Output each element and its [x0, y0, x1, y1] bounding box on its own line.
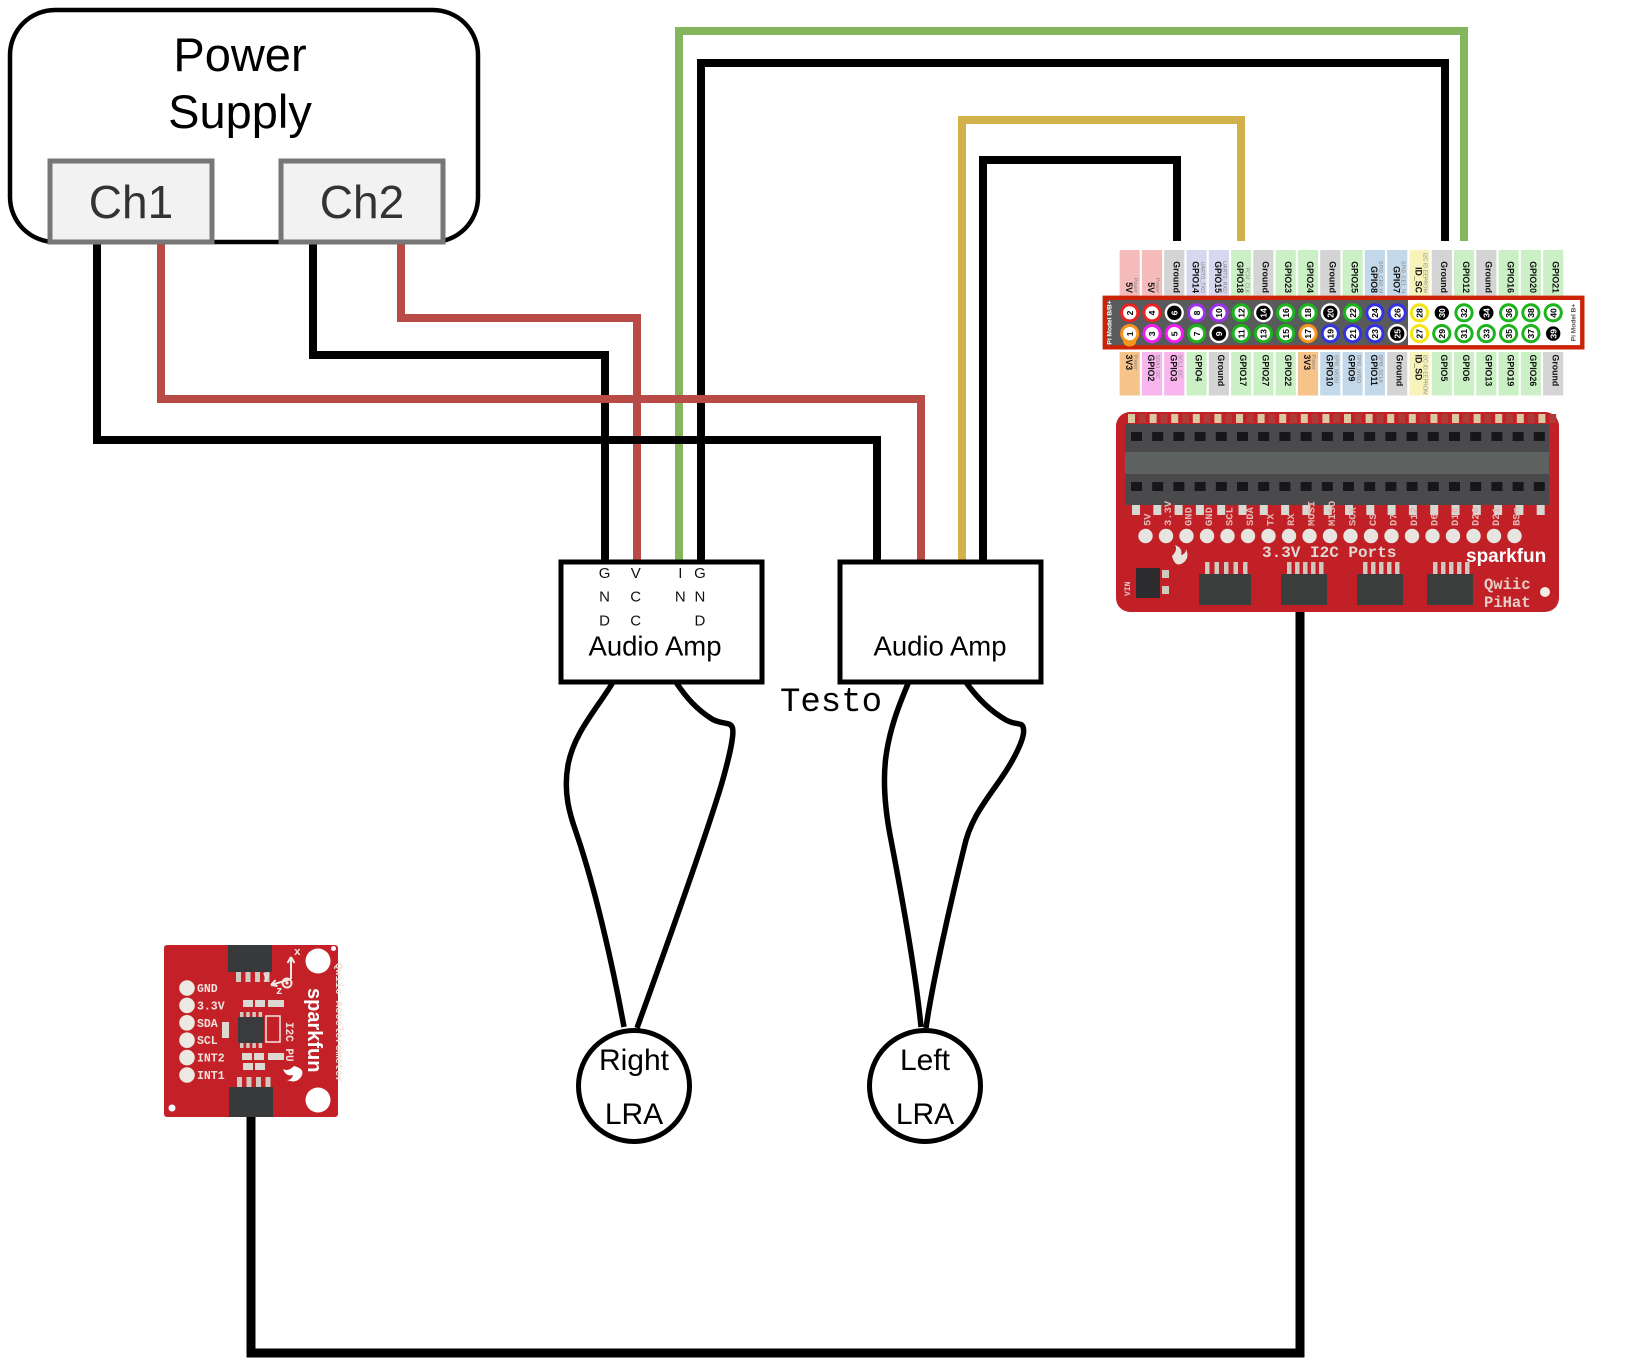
svg-text:29: 29: [1437, 329, 1447, 339]
svg-text:30: 30: [1437, 308, 1447, 318]
svg-text:GPIO12: GPIO12: [1461, 261, 1471, 293]
svg-text:GPIO27: GPIO27: [1261, 355, 1271, 387]
svg-text:3: 3: [1147, 331, 1157, 336]
svg-text:D16: D16: [1450, 507, 1462, 526]
svg-text:GPIO16: GPIO16: [1506, 261, 1516, 293]
svg-text:GPIO5: GPIO5: [1439, 355, 1449, 382]
svg-text:28: 28: [1415, 308, 1425, 318]
svg-text:SCL1 I2C: SCL1 I2C: [1177, 355, 1183, 378]
pin 16: [1276, 303, 1295, 322]
audio amp U2: [840, 562, 1041, 682]
svg-text:G: G: [694, 565, 706, 582]
pin 26: [1388, 303, 1407, 322]
pin 10: [1209, 303, 1228, 322]
svg-text:INT1: INT1: [197, 1070, 225, 1083]
svg-text:SPI0_MOSI: SPI0_MOSI: [1333, 355, 1339, 383]
pihat solder pads: [1132, 505, 1545, 515]
pin 40: [1544, 303, 1563, 322]
GPIO header strip body: [1105, 298, 1583, 348]
svg-text:D21: D21: [1491, 507, 1503, 526]
svg-text:GPIO6: GPIO6: [1461, 355, 1471, 382]
pin 5: [1165, 324, 1184, 343]
svg-text:Power: Power: [173, 28, 306, 81]
svg-text:D7: D7: [1389, 513, 1401, 526]
audio amp U1: [561, 562, 762, 682]
pin 11: [1232, 324, 1251, 343]
pin 21: [1343, 324, 1362, 343]
svg-text:37: 37: [1526, 329, 1536, 339]
pin 2: [1120, 303, 1139, 322]
pin 8: [1187, 303, 1206, 322]
pin 35: [1499, 324, 1518, 343]
svg-text:26: 26: [1392, 308, 1402, 318]
svg-text:SDA1 I2C: SDA1 I2C: [1154, 355, 1160, 379]
svg-text:D12: D12: [1409, 507, 1421, 526]
pin 15: [1276, 324, 1295, 343]
svg-text:Audio Amp: Audio Amp: [588, 631, 721, 662]
svg-text:GPIO26: GPIO26: [1528, 355, 1538, 387]
wire black Ch1 to amp2 GND: [97, 240, 877, 566]
svg-text:SPI0_CE0_N: SPI0_CE0_N: [1377, 261, 1383, 293]
svg-text:GPIO21: GPIO21: [1550, 261, 1560, 293]
svg-text:RX: RX: [1286, 513, 1298, 526]
svg-text:GND: GND: [1204, 507, 1216, 526]
svg-text:GPIO4: GPIO4: [1194, 355, 1204, 382]
accelerometer bottom qwiic connector: [229, 1077, 273, 1117]
svg-text:SPI0_SCLK: SPI0_SCLK: [1377, 355, 1383, 384]
svg-text:3.3V: 3.3V: [1163, 500, 1175, 526]
svg-text:INT2: INT2: [197, 1053, 225, 1066]
svg-text:3.3V I2C Ports: 3.3V I2C Ports: [1262, 544, 1396, 562]
svg-text:G: G: [599, 565, 611, 582]
svg-text:GPIO25: GPIO25: [1350, 261, 1360, 293]
svg-text:C: C: [630, 612, 641, 629]
svg-text:24: 24: [1370, 308, 1380, 318]
svg-text:33: 33: [1482, 329, 1492, 339]
svg-text:1: 1: [1125, 331, 1135, 336]
svg-text:GPIO19: GPIO19: [1506, 355, 1516, 387]
svg-text:SDA: SDA: [197, 1018, 218, 1031]
pin 4: [1142, 303, 1161, 322]
svg-text:GND: GND: [1184, 507, 1196, 526]
svg-text:17: 17: [1303, 329, 1313, 339]
pin 30: [1432, 303, 1451, 322]
svg-text:Ground: Ground: [1216, 355, 1226, 387]
pihat breakout holes and labels: [1138, 500, 1523, 543]
wire yellow GPIO18 to amp2 IN: [962, 120, 1241, 566]
svg-text:40: 40: [1548, 308, 1558, 318]
svg-text:2: 2: [1125, 310, 1135, 315]
svg-text:PiHat: PiHat: [1484, 594, 1531, 612]
svg-text:Audio Amp: Audio Amp: [873, 631, 1006, 662]
svg-text:I: I: [678, 565, 682, 582]
sparkfun flame icon: [1172, 545, 1187, 564]
svg-text:V: V: [631, 565, 641, 582]
svg-text:19: 19: [1326, 329, 1336, 339]
svg-text:D6: D6: [1430, 513, 1442, 526]
svg-text:20: 20: [1326, 308, 1336, 318]
pihat 40-pin socket: [1125, 424, 1549, 505]
pin 22: [1343, 303, 1362, 322]
svg-text:C: C: [630, 589, 641, 606]
svg-text:5: 5: [1170, 331, 1180, 336]
GPIO bottom label row: [1120, 352, 1564, 396]
svg-text:SDA: SDA: [1245, 506, 1257, 526]
accelerometer pin holes: [179, 980, 225, 1083]
svg-text:Power: Power: [1310, 355, 1316, 370]
svg-text:Ground: Ground: [1261, 261, 1271, 293]
svg-text:Ground: Ground: [1439, 261, 1449, 293]
pin 1 marker tab: [1123, 334, 1136, 347]
pin 14: [1254, 303, 1273, 322]
sparkfun qwiic accelerometer board: [164, 945, 344, 1117]
svg-text:13: 13: [1259, 329, 1269, 339]
svg-text:11: 11: [1236, 329, 1246, 338]
svg-text:25: 25: [1392, 329, 1402, 339]
pin 28: [1410, 303, 1429, 322]
wire amp1 to right LRA left lead: [566, 683, 624, 1027]
mounting holes: [306, 949, 331, 974]
svg-text:5V: 5V: [1143, 513, 1155, 526]
svg-text:38: 38: [1526, 308, 1536, 318]
pin 31: [1454, 324, 1473, 343]
wire black ground amp2 to pi: [983, 160, 1177, 566]
svg-text:Supply: Supply: [168, 85, 312, 138]
svg-text:Ground: Ground: [1550, 355, 1560, 387]
svg-text:SPI0_MISO: SPI0_MISO: [1355, 355, 1361, 383]
svg-text:23: 23: [1370, 329, 1380, 339]
svg-text:22: 22: [1348, 308, 1358, 318]
power supply PS1: [10, 10, 478, 242]
svg-text:21: 21: [1348, 329, 1358, 339]
pin 37: [1521, 324, 1540, 343]
wire black I2C accelerometer to pihat: [251, 605, 1300, 1353]
svg-text:I2C PU: I2C PU: [282, 1022, 294, 1062]
svg-text:27: 27: [1415, 329, 1425, 339]
svg-text:UART0_RXD: UART0_RXD: [1221, 261, 1227, 293]
svg-text:Ground: Ground: [1483, 261, 1493, 293]
wire green GPIO12 to amp1 IN: [679, 31, 1464, 566]
svg-text:Qwiic: Qwiic: [1484, 576, 1531, 594]
pin 38: [1521, 303, 1540, 322]
svg-text:Power: Power: [1154, 278, 1160, 293]
svg-text:GPIO22: GPIO22: [1283, 355, 1293, 387]
svg-text:31: 31: [1459, 329, 1469, 339]
pin 7: [1187, 324, 1206, 343]
svg-text:Left: Left: [900, 1044, 951, 1077]
svg-text:SPI0_CE1_N: SPI0_CE1_N: [1399, 261, 1405, 293]
axis indicator: [271, 957, 295, 988]
speaker right LRA: [579, 1031, 690, 1142]
svg-text:14: 14: [1259, 308, 1269, 318]
pin 25: [1388, 324, 1407, 343]
svg-text:Ground: Ground: [1394, 355, 1404, 387]
pin 6: [1165, 303, 1184, 322]
pin 29: [1432, 324, 1451, 343]
svg-text:TX: TX: [1266, 513, 1278, 526]
pin 24: [1365, 303, 1384, 322]
svg-text:Power: Power: [1132, 278, 1138, 293]
svg-text:39: 39: [1548, 329, 1558, 339]
pin 12: [1232, 303, 1251, 322]
svg-text:LRA: LRA: [605, 1098, 663, 1131]
svg-text:UART0_TXD: UART0_TXD: [1199, 262, 1205, 293]
svg-text:9: 9: [1214, 331, 1224, 336]
svg-text:8: 8: [1192, 310, 1202, 315]
svg-text:N: N: [599, 589, 610, 606]
pin 18: [1298, 303, 1317, 322]
svg-text:N: N: [675, 589, 686, 606]
svg-text:36: 36: [1504, 308, 1514, 318]
wire amp2 to left LRA left lead: [884, 683, 921, 1027]
svg-text:VIN: VIN: [1124, 581, 1133, 596]
svg-text:34: 34: [1482, 308, 1492, 318]
wire red Ch2 to amp1 VCC: [401, 240, 637, 566]
pin 34: [1477, 303, 1496, 322]
wire amp1 to right LRA right lead: [637, 683, 733, 1028]
sparkfun qwiic pihat board: [1116, 412, 1559, 612]
svg-text:CS: CS: [1368, 513, 1380, 526]
wire red Ch1 to amp2 VCC: [161, 240, 921, 566]
svg-text:Ground: Ground: [1327, 261, 1337, 293]
svg-text:16: 16: [1281, 308, 1291, 318]
svg-text:32: 32: [1459, 308, 1469, 318]
accelerometer passives: [222, 1000, 284, 1070]
svg-text:Right: Right: [599, 1044, 670, 1077]
pin 20: [1321, 303, 1340, 322]
svg-text:GPIO13: GPIO13: [1483, 355, 1493, 387]
svg-text:Qwiic Accelerometer: Qwiic Accelerometer: [332, 963, 344, 1083]
wire amp2 to left LRA right lead: [926, 683, 1024, 1028]
pin 33: [1477, 324, 1496, 343]
svg-text:35: 35: [1504, 329, 1514, 339]
pihat qwiic connectors: [1199, 562, 1251, 605]
svg-text:GPIO20: GPIO20: [1528, 261, 1538, 293]
svg-text:Testo: Testo: [780, 684, 882, 722]
terminal Ch2: [281, 161, 443, 242]
svg-text:7: 7: [1192, 331, 1202, 336]
terminal Ch1: [50, 161, 212, 242]
pin 39: [1544, 324, 1563, 343]
svg-text:GPIO23: GPIO23: [1283, 261, 1293, 293]
svg-text:Ch2: Ch2: [320, 176, 404, 228]
pin 23: [1365, 324, 1384, 343]
svg-text:D20: D20: [1471, 507, 1483, 526]
pin 9: [1209, 324, 1228, 343]
pin 17: [1298, 324, 1317, 343]
svg-text:z: z: [276, 986, 283, 998]
svg-text:sparkfun: sparkfun: [303, 988, 325, 1072]
svg-text:SCL: SCL: [1225, 507, 1237, 526]
svg-text:4: 4: [1147, 310, 1157, 315]
svg-text:Power: Power: [1132, 355, 1138, 370]
GPIO top label row: [1120, 250, 1564, 296]
accelerometer top qwiic connector: [228, 945, 272, 982]
pin 1: [1120, 324, 1139, 343]
svg-text:LRA: LRA: [896, 1098, 954, 1131]
svg-text:D: D: [694, 612, 705, 629]
svg-text:BSn: BSn: [1512, 507, 1524, 526]
svg-text:15: 15: [1281, 329, 1291, 339]
svg-text:I2C ID EEPROM: I2C ID EEPROM: [1422, 253, 1428, 294]
svg-text:PCM_CLK: PCM_CLK: [1243, 268, 1249, 294]
pihat small IC U3: [1124, 568, 1169, 598]
svg-text:N: N: [694, 589, 705, 606]
svg-text:Ground: Ground: [1171, 261, 1181, 293]
pin 36: [1499, 303, 1518, 322]
svg-text:MOSI: MOSI: [1307, 501, 1319, 526]
svg-text:sparkfun: sparkfun: [1466, 546, 1546, 567]
pihat top pad row: [1128, 414, 1556, 423]
svg-text:6: 6: [1170, 310, 1180, 315]
accelerometer IC U2: [238, 1012, 264, 1048]
svg-text:GPIO24: GPIO24: [1305, 261, 1315, 293]
svg-text:MISO: MISO: [1327, 501, 1339, 526]
svg-text:12: 12: [1236, 308, 1246, 318]
svg-text:3.3V: 3.3V: [197, 1000, 225, 1013]
pin 32: [1454, 303, 1473, 322]
svg-text:SCK: SCK: [1348, 506, 1360, 526]
pin 13: [1254, 324, 1273, 343]
pin 27: [1410, 324, 1429, 343]
svg-text:18: 18: [1303, 308, 1313, 318]
svg-text:D: D: [599, 612, 610, 629]
svg-text:GPIO17: GPIO17: [1238, 355, 1248, 387]
svg-text:Pi Model B+: Pi Model B+: [1571, 304, 1578, 342]
svg-text:y: y: [263, 971, 270, 983]
svg-text:GND: GND: [197, 983, 218, 996]
svg-text:10: 10: [1214, 308, 1224, 318]
svg-text:SCL: SCL: [197, 1035, 218, 1048]
wire black Ch2 to amp1 GND: [313, 240, 605, 566]
raspberry pi GPIO pinout header J1: [1105, 250, 1583, 396]
svg-text:Pi Model B/B+: Pi Model B/B+: [1107, 300, 1114, 344]
speaker left LRA: [870, 1031, 981, 1142]
svg-text:x: x: [294, 947, 301, 959]
pin 3: [1142, 324, 1161, 343]
svg-text:I2C ID EEPROM: I2C ID EEPROM: [1422, 355, 1428, 396]
wire black ground amp1 to pi: [701, 63, 1445, 566]
pin 19: [1321, 324, 1340, 343]
svg-text:Ch1: Ch1: [89, 176, 173, 228]
